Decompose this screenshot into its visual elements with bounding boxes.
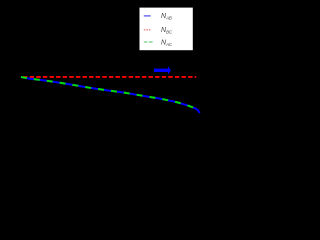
legend entry 1: blue solid line — [144, 15, 151, 17]
blue solid curve N_AB — [21, 77, 200, 113]
legend entry 2: red dashed line — [144, 29, 151, 31]
legend entry 3: green dashed line — [144, 41, 153, 43]
blue arrow — [154, 66, 171, 74]
red dashed horizontal line N_BC — [23, 76, 196, 78]
legend box — [140, 8, 193, 51]
green dashed curve N_AC overlaid — [21, 77, 198, 110]
